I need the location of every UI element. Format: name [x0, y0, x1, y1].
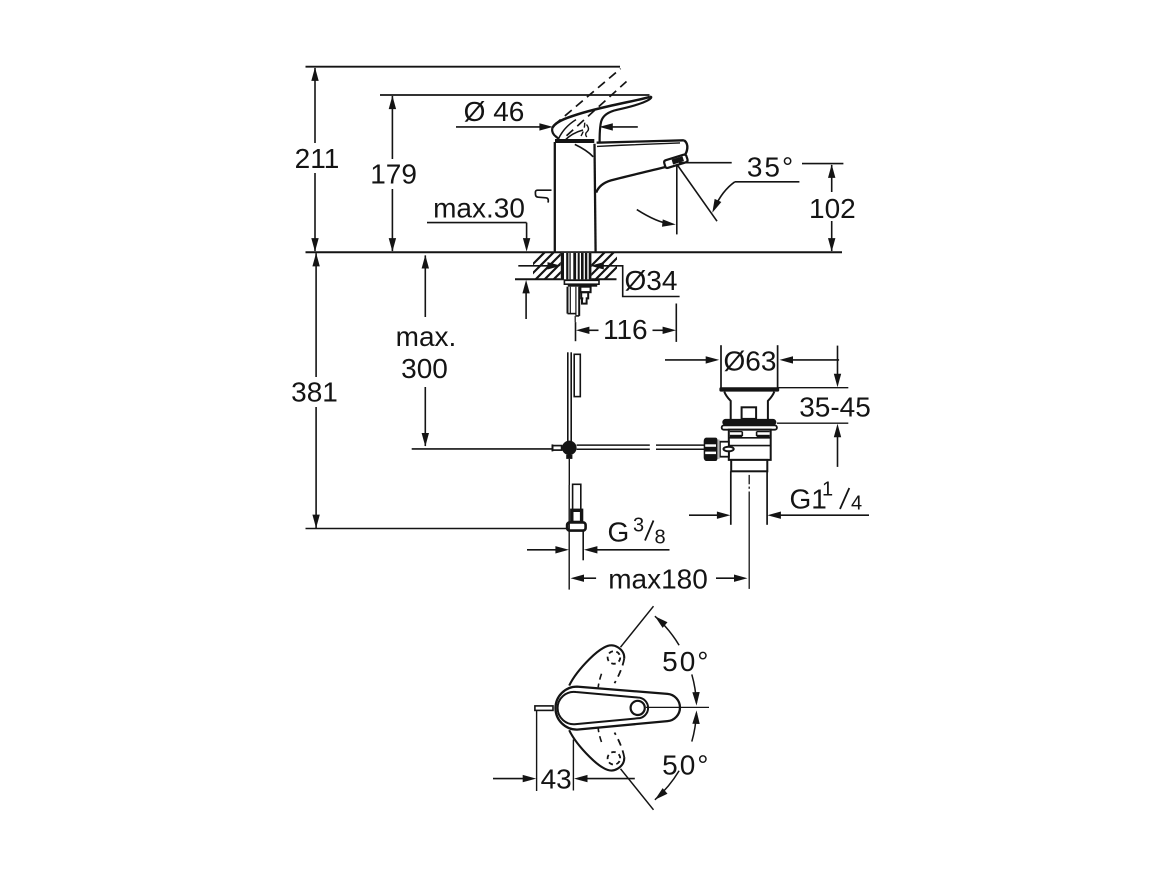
- svg-text:max.30: max.30: [433, 193, 525, 224]
- lower 50 degree boundary line: [621, 769, 654, 810]
- dimension 381: [291, 253, 338, 528]
- cartridge seam (thick): [555, 139, 594, 143]
- svg-text:Ø63: Ø63: [724, 346, 777, 377]
- svg-text:3: 3: [633, 515, 644, 537]
- horizontal rod segment 1 top: [577, 444, 650, 446]
- svg-text:50°: 50°: [662, 646, 710, 677]
- tab below ball: [566, 455, 572, 459]
- body slot right: [757, 432, 770, 436]
- pin below ellipse: [728, 451, 730, 456]
- dimension 43: [493, 711, 635, 795]
- svg-text:G: G: [608, 517, 630, 548]
- countertop bottom surface line: [515, 278, 617, 280]
- mounting step 1: [580, 287, 590, 293]
- step white notch: [583, 296, 585, 300]
- drain flange left side: [720, 345, 722, 387]
- upper 50 degree arc: [652, 613, 700, 705]
- svg-text:381: 381: [291, 377, 338, 408]
- body slot left: [730, 432, 743, 436]
- rod port on body: [720, 442, 729, 457]
- mounting step 2: [581, 292, 588, 298]
- horizontal rod segment 1 bottom: [577, 448, 650, 450]
- svg-text:50°: 50°: [662, 750, 710, 781]
- flange dark underline: [568, 284, 597, 287]
- COUNTER: [516, 251, 633, 322]
- flange bottom dark band: [719, 387, 779, 391]
- threaded shank background: [561, 253, 592, 279]
- handle internal arc B: [565, 130, 584, 141]
- mounting step 3: [582, 298, 587, 303]
- spout nose: [684, 140, 687, 155]
- centre stub line to 116 tick: [574, 316, 576, 322]
- spout top inner line: [597, 143, 680, 147]
- FAUCET: [535, 69, 687, 252]
- pivot lens ellipse: [724, 447, 734, 452]
- body line at rod level: [729, 445, 771, 447]
- dimension Ø46: [456, 96, 638, 131]
- dashed cartridge arc: [581, 121, 585, 137]
- lower hose dark block: [572, 510, 582, 522]
- spout top edge: [597, 140, 684, 142]
- drain neck: [724, 392, 774, 419]
- handle internal squiggle: [586, 125, 589, 138]
- overflow window: [742, 407, 757, 419]
- dimension max.30 with leader: [427, 193, 530, 320]
- svg-text:1: 1: [822, 479, 833, 501]
- shank tube below flange: [567, 287, 569, 314]
- rubber seal (dark): [722, 419, 776, 426]
- svg-text:max180: max180: [608, 564, 708, 595]
- raised handle dashed line 2: [567, 82, 627, 136]
- nut white stripe 1: [705, 444, 716, 447]
- DRAIN: [704, 345, 780, 589]
- MAIN-LINES: [306, 67, 843, 529]
- dimension Ø34 with leader: [518, 262, 679, 296]
- front tab: [535, 706, 553, 711]
- drain body: [729, 430, 771, 460]
- nut white band: [569, 525, 584, 527]
- nut white stripe 2: [705, 452, 716, 455]
- svg-text:102: 102: [809, 193, 856, 224]
- knurled adjusting nut: [704, 438, 718, 461]
- handle nose lower curve: [552, 128, 559, 141]
- lower hose tube: [573, 484, 581, 510]
- dimension 102: [809, 164, 856, 251]
- hose-end reference line (381 bottom): [306, 528, 568, 530]
- svg-text:35°: 35°: [747, 152, 795, 183]
- top view inner handle outline: [558, 692, 648, 724]
- stub end cap: [551, 444, 553, 451]
- lower swung handle (wing mirrored): [569, 729, 624, 771]
- pop-up rod upper right line: [570, 352, 572, 441]
- top reference line (211 top): [306, 66, 621, 68]
- svg-text:Ø34: Ø34: [625, 265, 678, 296]
- drain flange right side: [777, 345, 779, 387]
- metal washer: [722, 425, 777, 429]
- flexible hose upper fitting: [574, 354, 580, 396]
- dimension G 3/8: [527, 515, 670, 554]
- TOPVIEW: [493, 606, 710, 810]
- handle internal arc A: [559, 120, 577, 139]
- mounting hook left of body: [535, 190, 551, 202]
- rod joint ball: [562, 441, 577, 456]
- aerator dark slot: [672, 156, 684, 164]
- svg-text:Ø 46: Ø 46: [464, 96, 525, 127]
- svg-text:4: 4: [851, 493, 862, 515]
- MIDPARTS: [552, 352, 704, 589]
- dimension G1 1/4: [689, 479, 869, 519]
- dimension 116: [576, 304, 677, 346]
- aerator outline: [664, 155, 687, 168]
- rod front stub: [553, 446, 562, 451]
- handle hole circle: [631, 701, 645, 715]
- upper 50 degree boundary line: [621, 606, 654, 647]
- swivel arc arrow: [637, 210, 671, 225]
- tail pipe left side: [730, 471, 732, 525]
- body line under slots: [729, 437, 771, 439]
- dimension 35 degrees with leader and angle lines: [637, 152, 844, 235]
- horizontal rod segment 2 bottom: [656, 448, 704, 450]
- countertop hatching right band: [576, 251, 633, 281]
- handle-tip reference line (179 top): [380, 94, 650, 96]
- raised handle dashed line 1: [554, 69, 621, 126]
- DIMS-LEFT: [291, 67, 856, 528]
- top view outer handle outline: [556, 687, 680, 730]
- dimension 211: [295, 67, 340, 251]
- upper swung handle (wing): [569, 645, 624, 687]
- spout root fillet: [575, 144, 593, 156]
- faucet body right edge: [595, 144, 596, 252]
- dimension 179: [370, 96, 417, 252]
- pin above ellipse: [728, 444, 730, 447]
- pop-up rod level reference line: [412, 448, 553, 450]
- tube right line below nut: [582, 531, 584, 561]
- dimension 35-45: [777, 346, 871, 467]
- svg-text:8: 8: [655, 527, 666, 549]
- left tube line and max180 extension: [568, 485, 570, 590]
- countertop top surface line: [306, 251, 843, 253]
- dimension Ø63: [665, 346, 839, 377]
- svg-text:max.: max.: [396, 321, 457, 352]
- mounting flange washer: [564, 280, 599, 284]
- lower 50 degree arc: [652, 710, 700, 802]
- centre line: [748, 475, 750, 589]
- slanted 35 degree line: [677, 165, 717, 222]
- pop-up rod upper left line: [567, 352, 569, 441]
- rod lower vertical line: [568, 459, 570, 485]
- svg-text:179: 179: [370, 159, 417, 190]
- svg-text:35-45: 35-45: [799, 391, 871, 422]
- spout underside: [596, 167, 665, 193]
- dimension max.300: [396, 255, 457, 447]
- hex section: [731, 460, 767, 471]
- handle tip and lever underside: [600, 97, 652, 142]
- svg-text:43: 43: [541, 763, 572, 794]
- handle top edge: [552, 97, 650, 128]
- svg-text:211: 211: [295, 143, 340, 174]
- dimension max180: [571, 564, 748, 595]
- grey sliver: [717, 440, 719, 460]
- tail pipe right side: [766, 471, 768, 525]
- vertical water line: [676, 165, 678, 235]
- horizontal rod segment 2 top: [656, 444, 704, 446]
- DIMS-RIGHT: [527, 346, 871, 595]
- countertop hatching left band: [516, 251, 582, 281]
- faucet body left edge: [554, 142, 556, 252]
- horizontal centre line: [646, 706, 709, 708]
- svg-text:300: 300: [401, 353, 448, 384]
- hose connection nut: [567, 522, 586, 530]
- svg-text:116: 116: [603, 314, 648, 345]
- shank thread bars: [561, 253, 592, 279]
